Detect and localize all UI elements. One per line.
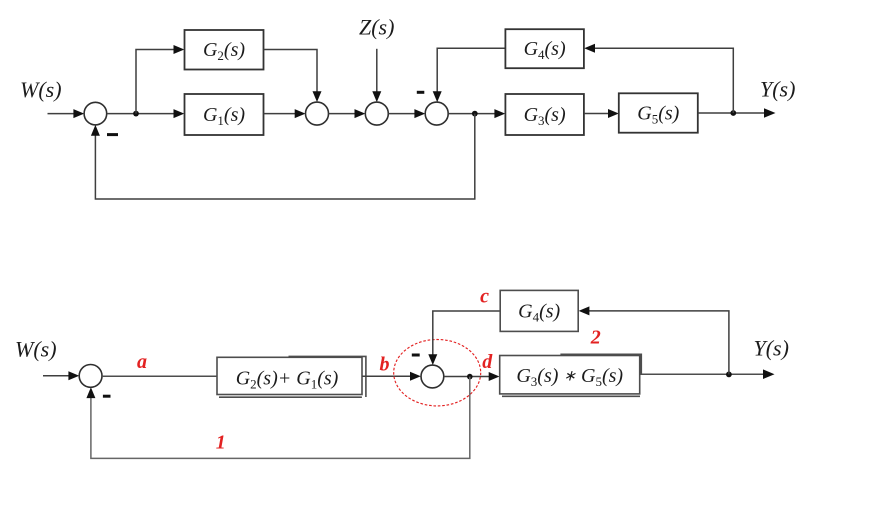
wire output node up and left into G4 bottom with arrowhead [579,306,729,374]
wire block output to Y(s) with arrowhead [640,369,775,379]
node branch dot after S1 [133,111,139,117]
svg-text:b: b [380,354,390,376]
svg-text:G4(s): G4(s) [518,301,560,325]
block G4(s) bottom [500,290,578,331]
wire branch up to G2 with arrowhead [136,45,184,114]
minus sign at S5 [103,395,111,398]
node dot d [467,374,473,380]
wire feedback from node d down left and up into S5 with arrowhead [86,377,469,459]
block G2(s)+G1(s) [217,356,366,397]
wire S2 to S3 with arrowhead [329,109,366,118]
svg-text:G3(s): G3(s) [524,104,566,128]
svg-text:G4(s): G4(s) [524,38,566,62]
minus sign at S4 [417,91,425,94]
svg-text:Y(s): Y(s) [754,336,789,361]
wire input arrow into summing junction S5 [43,371,79,380]
wire S3 to S4 with arrowhead [388,109,425,118]
block G4(s) top [505,29,584,68]
svg-text:1: 1 [216,432,226,454]
minus sign at S1 [107,133,118,136]
summing junction S4 [425,102,448,125]
svg-text:Y(s): Y(s) [760,77,795,102]
wire G4 output left and down into S6 with arrowhead [428,311,500,365]
block G5(s) [619,93,698,132]
wire G3 to G5 with arrowhead [584,109,619,118]
node dot after S4 [472,111,478,117]
svg-text:W(s): W(s) [15,337,57,362]
svg-text:2: 2 [590,327,601,349]
svg-text:G5(s): G5(s) [637,103,679,127]
block G2(s) [185,30,264,70]
summing junction S6 [421,365,444,388]
summing junction S5 [79,365,102,388]
wire G1 output into S2 with arrowhead [264,109,306,118]
node dot on bottom output line [726,372,732,378]
wire feedback from node after S4 down left and up into S1 with arrowhead [91,114,475,199]
wire G4 output down into S4 with arrowhead [433,48,506,102]
wire S1 to G1 with arrowhead [107,109,185,118]
wire G2 output down into S2 with arrowhead [264,50,322,103]
summing junction S1 [84,102,107,125]
minus sign at S6 [412,354,420,357]
svg-text:Z(s): Z(s) [359,15,394,40]
wire a from S5 to block [102,375,217,377]
wire G5 to output Y(s) with arrowhead [698,108,776,118]
wire S6 through node d into block with arrowhead [444,372,500,381]
node dot on output line [730,110,736,116]
summing junction S2 [306,102,329,125]
wire S4 to G3 with arrowhead [448,109,505,118]
block G1(s) [185,94,264,135]
svg-text:G1(s): G1(s) [203,104,245,128]
wire b from block to S6 with arrowhead [362,372,421,381]
svg-text:d: d [482,351,493,373]
wire Z arrow down into S3 [372,49,381,102]
block G3(s) [505,94,584,135]
red ellipse around S6 [394,340,481,406]
svg-text:G2(s): G2(s) [203,39,245,63]
wire output node up and left into G4 with arrowhead [584,44,733,113]
block G3(s)*G5(s) [500,354,642,396]
summing junction S3 [365,102,388,125]
svg-text:c: c [480,286,489,308]
svg-text:a: a [137,351,147,373]
svg-text:W(s): W(s) [20,77,62,102]
wire input arrow into summing junction S1 [48,109,85,118]
